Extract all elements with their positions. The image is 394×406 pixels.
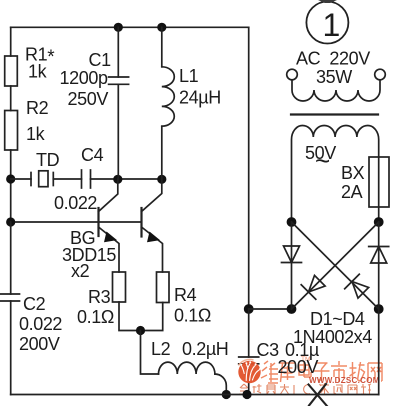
svg-text:200V: 200V (19, 334, 60, 354)
transistor Q2 BG 3DD15 (142, 179, 163, 272)
svg-text:1k: 1k (28, 62, 48, 82)
diode D right (369, 247, 389, 264)
svg-text:TD: TD (36, 150, 60, 170)
wire base between Q1 Q2 (99, 221, 142, 223)
node top rail L1 (157, 23, 166, 32)
node bridge BL (287, 304, 297, 314)
svg-text:AC 220V: AC 220V (296, 49, 370, 69)
node C3 top (244, 304, 254, 314)
wire R1 to R2 (10, 86, 12, 111)
svg-text:0.1Ω: 0.1Ω (174, 306, 211, 326)
watermark big char 市 (331, 361, 347, 382)
watermark big char 子 (314, 363, 330, 380)
watermark big char 库 (280, 363, 295, 382)
inductor L2 (159, 362, 215, 374)
svg-text:~: ~ (315, 146, 330, 176)
wire C1 lower (117, 84, 119, 179)
svg-text:1200p: 1200p (60, 68, 108, 88)
svg-text:C2: C2 (23, 294, 46, 314)
wire C1 upper (117, 27, 119, 77)
wire R3 bottom (119, 302, 141, 331)
resistor R2 (5, 111, 18, 151)
watermark big char 电 (299, 361, 311, 377)
svg-text:WWW.DZSC.COM: WWW.DZSC.COM (309, 376, 380, 385)
svg-text:C4: C4 (81, 145, 104, 165)
capacitor C3 (239, 356, 259, 358)
X mark on bottom rail (309, 384, 328, 406)
wire base line (11, 221, 99, 223)
wire bridge left vertical (291, 222, 293, 309)
node base wire left (6, 217, 15, 226)
fuse BX (369, 157, 389, 207)
wire R2 to node A (10, 150, 12, 222)
wire top rail (11, 26, 249, 28)
wire diagonal TR-BL (292, 222, 379, 309)
wire right vertical of tank block (248, 27, 250, 309)
wire TD to C4 (53, 178, 81, 180)
svg-text:1N4002x4: 1N4002x4 (293, 327, 372, 347)
svg-text:0.022: 0.022 (54, 193, 97, 213)
node bridge TL (287, 217, 297, 227)
node collector Q2 (157, 175, 166, 184)
node C3 bottom rail (242, 390, 251, 399)
watermark slogan row (239, 383, 371, 394)
wire C2 bottom (10, 301, 12, 395)
svg-text:35W: 35W (316, 67, 352, 87)
wire C4 to collector nodes (91, 178, 162, 180)
wire C2 top (10, 222, 12, 294)
wire bridge right vertical (378, 222, 380, 309)
node bridge TR (374, 217, 384, 227)
svg-text:C3: C3 (257, 340, 280, 360)
svg-text:x2: x2 (71, 261, 90, 281)
wire node to bridge BL (249, 308, 292, 310)
node L2 bottom rail (222, 390, 231, 399)
wire node A to TD (11, 178, 31, 180)
wire C3 lower (248, 364, 250, 395)
transformer T primary coil (292, 80, 380, 101)
transformer core (291, 113, 378, 115)
crystal TD (30, 173, 32, 186)
diode D diag right (345, 274, 371, 300)
svg-text:1: 1 (323, 7, 340, 43)
node bridge BR (374, 304, 384, 314)
svg-text:0.022: 0.022 (19, 314, 62, 334)
wire L1 upper (161, 27, 163, 67)
wire junction to L2 (141, 331, 159, 375)
svg-text:C1: C1 (89, 50, 112, 70)
wire diagonal TL-BR (292, 222, 379, 309)
label circle 1 (306, 2, 348, 44)
wire bottom rail (11, 394, 379, 396)
transformer T primary terminals (287, 69, 298, 80)
inductor L1 (162, 67, 175, 126)
wire right vertical to rail (378, 309, 380, 395)
resistor R1 (5, 56, 18, 86)
watermark logo (238, 359, 261, 383)
wire left vertical upper (10, 27, 12, 56)
svg-text:250V: 250V (68, 89, 109, 109)
resistor R3 (113, 272, 126, 302)
svg-text:D1~D4: D1~D4 (310, 309, 365, 329)
svg-text:R4: R4 (174, 285, 197, 305)
capacitor C1 (109, 76, 129, 78)
node emitter junction (136, 326, 145, 335)
watermark big char 网 (368, 363, 382, 381)
wire L2 right (215, 374, 226, 395)
watermark big char 场 (350, 362, 365, 381)
capacitor C2 (0, 293, 20, 295)
node top rail C1 (114, 23, 123, 32)
node collector Q1 (113, 175, 122, 184)
wire R4 bottom (141, 303, 163, 331)
diode D diag left (301, 273, 327, 299)
svg-text:L2: L2 (151, 339, 171, 359)
svg-text:R2: R2 (26, 98, 49, 118)
capacitor C4 (81, 170, 83, 188)
diode D left (282, 246, 302, 263)
svg-text:24µH: 24µH (179, 88, 221, 108)
svg-text:R3: R3 (88, 287, 111, 307)
watermark big char 维 (261, 361, 278, 383)
svg-text:BX: BX (341, 163, 365, 183)
smudge top (318, 0, 337, 3)
resistor R4 (157, 272, 170, 303)
svg-text:1k: 1k (26, 124, 46, 144)
wire C3 upper (248, 309, 250, 357)
transformer T secondary coil (292, 125, 379, 222)
svg-text:2A: 2A (341, 182, 363, 202)
transistor Q1 BG 3DD15 (99, 179, 120, 272)
wire L1 lower (161, 126, 163, 179)
svg-text:0.1Ω: 0.1Ω (77, 307, 114, 327)
node A junction TD wire (6, 174, 15, 183)
svg-text:L1: L1 (179, 66, 199, 86)
svg-text:200V: 200V (278, 357, 319, 377)
svg-text:0.2µH: 0.2µH (182, 339, 228, 359)
